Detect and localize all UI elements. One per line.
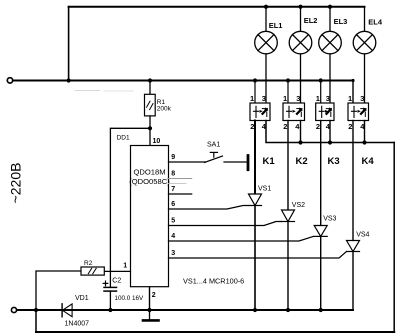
lamp EL3 bbox=[319, 7, 342, 103]
svg-text:2: 2 bbox=[250, 122, 254, 131]
svg-text:EL3: EL3 bbox=[334, 17, 348, 26]
wire DD1 pin6 to VS1 gate bbox=[169, 206, 249, 210]
wire riser from live bus to top bus bbox=[68, 7, 70, 81]
wire bottom ground rail bbox=[17, 309, 353, 311]
node junction rail / VS1 cathode bbox=[253, 308, 257, 312]
node junction live bus / riser bbox=[67, 78, 71, 82]
svg-text:VS1...4 MCR100-6: VS1...4 MCR100-6 bbox=[183, 277, 244, 286]
wire right frame return bbox=[393, 143, 395, 333]
wire branch up to R2 bbox=[36, 271, 81, 310]
wire K1 pin4 to neutral return rail bbox=[266, 121, 394, 143]
wire DD1 pin3 to VS4 gate bbox=[169, 252, 347, 259]
svg-text:VS1: VS1 bbox=[258, 186, 271, 193]
resistor R2 bbox=[81, 267, 104, 275]
node junction rail / left branch bbox=[34, 308, 38, 312]
ground symbol bbox=[149, 310, 151, 319]
wire faint artifact line under pin8 bbox=[169, 182, 187, 184]
svg-text:SA1: SA1 bbox=[207, 141, 220, 148]
svg-text:DD1: DD1 bbox=[117, 135, 130, 142]
svg-text:K2: K2 bbox=[296, 156, 308, 167]
optocoupler K1 bbox=[250, 81, 270, 121]
thyristor VS2 bbox=[282, 121, 295, 311]
node junction rail / VS2 cathode bbox=[286, 308, 290, 312]
wire K4 pin4 drop bbox=[364, 121, 366, 143]
svg-text:3: 3 bbox=[262, 94, 266, 103]
svg-text:K4: K4 bbox=[362, 156, 375, 167]
svg-text:VS2: VS2 bbox=[292, 202, 305, 209]
svg-text:EL4: EL4 bbox=[368, 18, 383, 27]
label C2 polarity + bbox=[103, 282, 108, 284]
lamp EL4 bbox=[353, 31, 376, 103]
svg-text:5: 5 bbox=[171, 217, 175, 224]
wire main live bus bbox=[13, 80, 353, 82]
svg-text:3: 3 bbox=[326, 94, 330, 103]
svg-text:4: 4 bbox=[171, 233, 175, 240]
diode VD1 bbox=[61, 304, 63, 317]
node junction top bus / EL3 bbox=[328, 5, 332, 9]
thyristor VS3 bbox=[314, 121, 327, 311]
svg-text:6: 6 bbox=[171, 201, 175, 208]
svg-text:8: 8 bbox=[171, 170, 175, 177]
wire bottom frame return bbox=[36, 331, 394, 333]
svg-text:R2: R2 bbox=[84, 260, 93, 267]
node junction top bus / EL1 bbox=[264, 5, 268, 9]
svg-text:EL1: EL1 bbox=[269, 21, 283, 30]
svg-text:VS4: VS4 bbox=[356, 231, 369, 238]
IC DD1 box bbox=[131, 146, 169, 287]
svg-text:100.0 16V: 100.0 16V bbox=[115, 295, 145, 302]
node junction rail / K2 pin4 bbox=[298, 140, 302, 144]
svg-text:EL2: EL2 bbox=[304, 16, 318, 25]
node junction rail / DD1 pin2 ground bbox=[147, 308, 151, 312]
optocoupler K2 bbox=[283, 81, 305, 121]
svg-text:9: 9 bbox=[171, 154, 175, 161]
svg-text:2: 2 bbox=[152, 292, 156, 299]
wire K2 pin4 drop bbox=[300, 121, 302, 143]
wire DD1 pin1 bbox=[104, 270, 130, 272]
svg-text:VS3: VS3 bbox=[323, 216, 336, 223]
svg-text:(QDO058C): (QDO058C) bbox=[129, 177, 170, 186]
svg-text:1: 1 bbox=[348, 94, 352, 103]
capacitor C2 bbox=[104, 286, 117, 288]
svg-text:10: 10 bbox=[153, 138, 161, 145]
svg-text:K3: K3 bbox=[328, 156, 340, 167]
svg-text:2: 2 bbox=[316, 122, 320, 131]
node junction live bus / K2 pin1 bbox=[286, 78, 290, 82]
node junction live bus / K3 pin1 bbox=[319, 78, 323, 82]
wire bottom frame to neutral terminal node bbox=[35, 310, 37, 332]
lamp EL2 bbox=[289, 7, 312, 103]
svg-text:3: 3 bbox=[296, 94, 300, 103]
svg-text:K1: K1 bbox=[263, 156, 276, 167]
node junction rail / C2 bbox=[108, 308, 112, 312]
thyristor VS1 bbox=[249, 121, 262, 311]
terminal X1 (~220V live) bbox=[7, 78, 12, 83]
wire DD1 pin7 stub bbox=[169, 193, 192, 195]
wire DD1 pin8 stub (faint) bbox=[169, 178, 192, 180]
svg-text:~220В: ~220В bbox=[7, 163, 23, 204]
switch SA1 bbox=[205, 156, 223, 163]
node junction live bus / R1 bbox=[148, 78, 152, 82]
wire branch from R1 node to C2 top bbox=[110, 128, 150, 287]
svg-text:1: 1 bbox=[316, 94, 320, 103]
svg-text:3: 3 bbox=[360, 94, 364, 103]
wire DD1 pin9 bbox=[169, 161, 206, 163]
node junction rail / K4 pin4 bbox=[362, 140, 366, 144]
svg-text:3: 3 bbox=[171, 250, 175, 257]
svg-text:1: 1 bbox=[123, 263, 127, 270]
wire DD1 pin4 to VS3 gate bbox=[169, 236, 314, 241]
lamp EL1 bbox=[255, 7, 278, 103]
optocoupler K4 bbox=[348, 103, 369, 121]
thyristor VS4 bbox=[347, 121, 360, 311]
svg-text:1N4007: 1N4007 bbox=[65, 321, 90, 328]
wire K3 pin4 drop bbox=[329, 121, 331, 143]
optocoupler K3 bbox=[316, 81, 334, 121]
resistor R1 bbox=[149, 81, 151, 95]
wire DD1 pin5 to VS2 gate bbox=[169, 222, 282, 226]
node junction R1 / DD1 pin10 / feed branch bbox=[148, 126, 152, 130]
svg-text:2: 2 bbox=[283, 122, 287, 131]
svg-text:1: 1 bbox=[283, 94, 287, 103]
node junction rail / K3 pin4 bbox=[328, 140, 332, 144]
svg-text:200k: 200k bbox=[157, 105, 172, 112]
node corner live bus / K4 pin1 bbox=[351, 79, 354, 82]
svg-text:7: 7 bbox=[171, 186, 175, 193]
node junction live bus / K1 pin1 bbox=[253, 78, 257, 82]
wire top lamp bus bbox=[69, 6, 365, 8]
wire DD1 pin2 to ground rail bbox=[149, 287, 151, 310]
terminal X2 (~220V neutral) bbox=[11, 307, 16, 312]
node junction top bus / EL2 bbox=[298, 5, 302, 9]
svg-text:C2: C2 bbox=[112, 277, 121, 284]
wire live bus corner down to K4 pin1 bbox=[352, 81, 354, 104]
svg-text:QDO18M: QDO18M bbox=[133, 167, 165, 176]
node junction rail / VS3 cathode bbox=[319, 308, 323, 312]
svg-text:2: 2 bbox=[348, 122, 352, 131]
wire top bus drop to EL4 bbox=[364, 7, 366, 32]
svg-text:1: 1 bbox=[250, 94, 254, 103]
svg-text:VD1: VD1 bbox=[75, 295, 89, 302]
wire faint scan artifact left of R1 bbox=[75, 90, 100, 92]
